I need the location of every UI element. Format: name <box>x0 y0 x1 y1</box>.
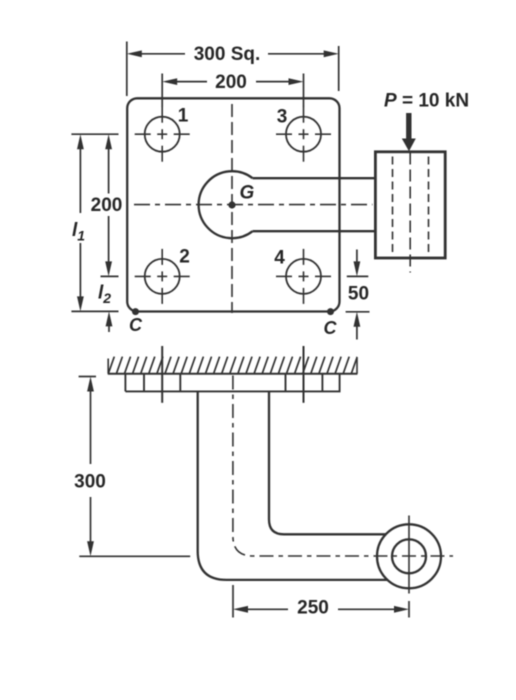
right tick 250 dim <box>408 601 410 618</box>
end boss inner circle (hole) <box>392 539 426 573</box>
corner dot C left <box>132 308 139 315</box>
svg-text:250: 250 <box>297 598 329 619</box>
bolt hole 3 <box>286 117 321 152</box>
block hidden line left (dashed) <box>392 157 394 254</box>
arm top edge <box>253 177 376 179</box>
svg-text:300: 300 <box>74 472 106 493</box>
clamped block (load application block) <box>375 152 445 258</box>
50 dim arrow from below <box>356 326 358 340</box>
plate outline (300 Sq. square flange, top view) <box>127 98 339 311</box>
svg-text:C: C <box>129 315 143 335</box>
50 dim arrow from above <box>356 250 358 263</box>
svg-text:G: G <box>240 183 255 204</box>
svg-text:300 Sq.: 300 Sq. <box>194 44 261 65</box>
bolt hole 1 <box>145 117 180 152</box>
dimension line l1 (outer) <box>79 149 81 213</box>
bolt centerline right (side view) <box>303 346 305 403</box>
bolt hole 4 <box>286 259 321 294</box>
extension line left for 200 (hole 1 centerline) <box>161 74 163 108</box>
dimension line 300 <box>90 392 92 465</box>
extension line left for 300 Sq. <box>126 42 128 97</box>
arm bottom edge <box>253 230 376 232</box>
end boss outer circle <box>377 524 441 588</box>
bolt boss lines in flange <box>143 374 145 392</box>
dimension line 200 top <box>177 81 207 83</box>
extension line right for 200 (hole 3 centerline) <box>303 74 305 108</box>
tick at hole-2 level <box>101 275 119 277</box>
left tick 250 dim <box>232 585 234 618</box>
central boss G with arm to the right <box>199 171 253 238</box>
pipe centerline (dash-dot, bent) <box>233 376 453 557</box>
plate horizontal centerline through G (dash-dot) <box>134 204 373 206</box>
flange plate edge view <box>124 374 126 392</box>
tick at plate bottom (50 dim) <box>346 311 370 313</box>
wall band left edge <box>107 359 109 374</box>
tick at hole-1 level <box>71 133 118 135</box>
pipe outer edge (left, with elbow) <box>198 391 388 580</box>
wall hatching <box>100 357 357 375</box>
svg-text:2: 2 <box>179 247 190 268</box>
pipe inner edge (right, with elbow) <box>269 391 386 534</box>
dimension line 200 (inner left) <box>108 149 110 194</box>
tick at plate bottom level <box>71 310 118 312</box>
svg-text:P = 10 kN: P = 10 kN <box>384 91 469 112</box>
dimension line 250 <box>248 608 288 610</box>
svg-text:C: C <box>324 318 338 338</box>
boss vertical centerline <box>408 516 410 594</box>
plate vertical centerline (dashed) <box>231 104 233 313</box>
block hidden line right (dashed) <box>428 157 430 254</box>
svg-text:3: 3 <box>277 107 288 128</box>
top tick 300 dim <box>79 376 96 378</box>
svg-text:1: 1 <box>178 106 189 127</box>
corner dot C right <box>327 308 334 315</box>
svg-text:200: 200 <box>91 195 123 216</box>
centroid dot G <box>228 201 235 208</box>
tick at hole-4 level (50 dim) <box>347 275 369 277</box>
bottom reference line 300 dim <box>79 555 190 557</box>
wall band right edge <box>356 357 358 374</box>
svg-text:50: 50 <box>348 284 369 305</box>
force arrow P (thick, downward) <box>406 113 411 140</box>
svg-text:200: 200 <box>215 72 247 93</box>
bolt hole 2 <box>145 259 180 294</box>
dimension l2 arrow from below <box>108 318 110 332</box>
svg-text:4: 4 <box>274 248 285 269</box>
dimension line 300 Sq. <box>142 53 186 55</box>
wall surface line <box>108 373 358 375</box>
bolt centerline left (side view) <box>161 346 163 403</box>
block centerline (dashed, extends below) <box>409 153 411 273</box>
extension line right for 300 Sq. <box>338 46 340 91</box>
